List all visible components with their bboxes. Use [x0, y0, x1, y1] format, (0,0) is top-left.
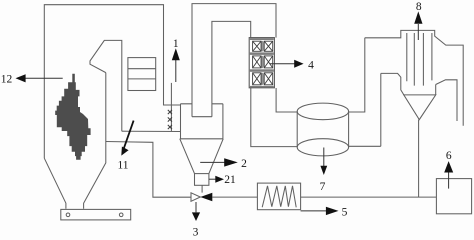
base plate: [61, 209, 131, 220]
cyclone standpipe: [170, 83, 172, 131]
bag filter hopper: [404, 95, 436, 120]
valve left triangle: [191, 193, 200, 202]
crosshatch duct down wall right: [276, 88, 297, 112]
arrow 5: [301, 206, 348, 218]
arrow 3 and valve filled half: [192, 193, 212, 239]
arrow 11: [117, 121, 133, 172]
svg-text:5: 5: [342, 206, 348, 218]
drum body: [297, 111, 348, 147]
main bottom pipe to box5: [212, 196, 257, 198]
svg-text:7: 7: [320, 181, 326, 193]
ash box 6: [436, 179, 471, 214]
zigzag coil: [262, 186, 296, 207]
svg-text:21: 21: [224, 174, 236, 186]
cyclone cone: [180, 139, 223, 174]
wire furnace bottom ash out: [106, 142, 191, 198]
furnace outer wall: [44, 5, 180, 159]
wire to cyclone inlet: [122, 130, 181, 132]
arrow 21: [209, 174, 236, 186]
svg-text:1: 1: [173, 38, 179, 50]
in-furnace heat exchanger panel 11: [128, 58, 156, 91]
svg-text:8: 8: [416, 1, 422, 13]
bag filter dust line: [418, 120, 420, 198]
svg-text:12: 12: [1, 74, 13, 86]
bag filter inner right: [436, 80, 457, 121]
arrow 2: [200, 158, 247, 170]
arrow 12: [1, 74, 63, 86]
crosshatch rotary heater 4: [249, 38, 274, 88]
wire box21 to valve: [201, 185, 203, 192]
flue duct inner / vortex finder: [212, 21, 251, 116]
furnace exit duct polygon (shape 1): [90, 40, 122, 131]
arrow 8: [414, 1, 422, 40]
arrow 6: [444, 150, 453, 189]
bag filter inlet duct top: [365, 30, 463, 125]
cyclone dipleg box 21: [195, 174, 209, 186]
drum outlet pipe: [349, 38, 365, 112]
arrow 7: [320, 148, 328, 193]
furnace inner right wall: [84, 73, 106, 209]
arrow 4: [270, 59, 315, 71]
flame in furnace: [55, 74, 90, 160]
vortex finder bottom: [192, 116, 212, 118]
svg-text:3: 3: [193, 226, 199, 238]
svg-text:11: 11: [117, 160, 128, 172]
loop seal x marks: [168, 110, 172, 129]
bag filter inlet bottom / left casing: [381, 73, 404, 95]
svg-text:6: 6: [446, 150, 452, 162]
cyclone body: [181, 103, 223, 105]
svg-text:4: 4: [308, 59, 314, 71]
filter bags: [407, 33, 432, 86]
heat exchanger box 5: [257, 183, 300, 210]
flue duct outer: [192, 4, 276, 117]
furnace hopper left: [44, 158, 66, 209]
drum bottom right wire: [349, 145, 381, 147]
crosshatch duct down wall left: [251, 88, 297, 147]
main pipe box5 to box6: [301, 196, 437, 198]
svg-text:2: 2: [241, 158, 247, 170]
arrow 1: [172, 38, 180, 82]
